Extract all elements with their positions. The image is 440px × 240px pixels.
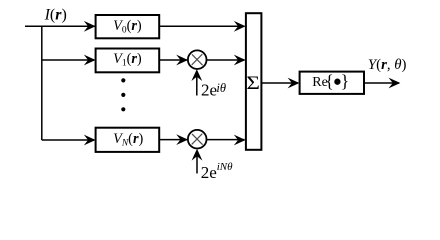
svg-text:2e: 2e <box>201 163 217 182</box>
svg-text:Σ: Σ <box>246 72 260 93</box>
svg-text:}: } <box>341 71 349 91</box>
svg-text:iθ: iθ <box>216 81 226 95</box>
svg-text:{: { <box>325 71 333 91</box>
svg-text:Y(r, θ): Y(r, θ) <box>368 57 407 73</box>
svg-text:2e: 2e <box>201 81 217 100</box>
svg-text:iNθ: iNθ <box>217 161 233 173</box>
svg-text:VN(r): VN(r) <box>113 131 143 149</box>
svg-text:V0(r): V0(r) <box>113 18 142 36</box>
svg-text:I(r): I(r) <box>44 6 67 23</box>
svg-text:V1(r): V1(r) <box>113 51 142 69</box>
